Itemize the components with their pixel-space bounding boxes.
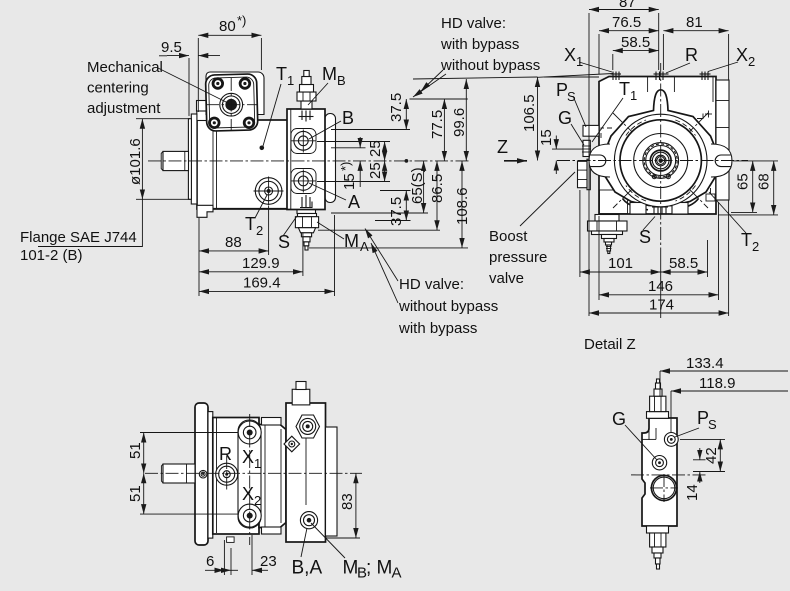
svg-text:M: M bbox=[322, 64, 337, 84]
svg-text:; M: ; M bbox=[366, 558, 392, 579]
svg-text:2: 2 bbox=[748, 54, 755, 69]
svg-text:42: 42 bbox=[703, 447, 720, 464]
svg-text:S: S bbox=[567, 89, 576, 104]
svg-text:G: G bbox=[558, 108, 572, 128]
svg-text:*): *) bbox=[237, 13, 246, 28]
svg-text:99.6: 99.6 bbox=[451, 108, 468, 137]
svg-text:51: 51 bbox=[127, 442, 144, 459]
svg-text:1: 1 bbox=[254, 456, 261, 471]
svg-text:25: 25 bbox=[367, 162, 384, 179]
svg-text:M: M bbox=[344, 231, 359, 251]
svg-text:S: S bbox=[708, 417, 717, 432]
svg-text:A: A bbox=[348, 192, 360, 212]
svg-text:106.5: 106.5 bbox=[521, 94, 538, 132]
svg-text:R: R bbox=[219, 444, 232, 464]
svg-text:valve: valve bbox=[489, 270, 524, 287]
svg-text:129.9: 129.9 bbox=[242, 255, 280, 272]
svg-text:without bypass: without bypass bbox=[398, 298, 498, 315]
svg-text:6: 6 bbox=[206, 553, 214, 570]
svg-text:1: 1 bbox=[287, 73, 294, 88]
svg-text:15: 15 bbox=[341, 173, 358, 190]
svg-text:B,A: B,A bbox=[292, 558, 323, 579]
svg-text:A: A bbox=[360, 239, 369, 254]
svg-text:ø101.6: ø101.6 bbox=[127, 138, 144, 185]
svg-text:23: 23 bbox=[260, 553, 277, 570]
svg-text:with bypass: with bypass bbox=[398, 320, 477, 337]
svg-text:37.5: 37.5 bbox=[388, 93, 405, 122]
svg-text:HD valve:: HD valve: bbox=[399, 276, 464, 293]
svg-text:Flange SAE J744: Flange SAE J744 bbox=[20, 229, 137, 246]
svg-text:S: S bbox=[639, 227, 651, 247]
svg-text:65(S): 65(S) bbox=[409, 167, 426, 204]
svg-text:51: 51 bbox=[127, 485, 144, 502]
svg-text:15: 15 bbox=[538, 129, 555, 146]
svg-text:A: A bbox=[392, 565, 402, 582]
svg-text:T: T bbox=[276, 64, 287, 84]
svg-text:*): *) bbox=[338, 162, 353, 171]
svg-text:B: B bbox=[337, 73, 346, 88]
svg-text:87: 87 bbox=[619, 0, 636, 11]
svg-text:101-2 (B): 101-2 (B) bbox=[20, 247, 83, 264]
svg-text:Mechanical: Mechanical bbox=[87, 59, 163, 76]
svg-text:1: 1 bbox=[576, 54, 583, 69]
svg-text:pressure: pressure bbox=[489, 249, 547, 266]
svg-text:37.5: 37.5 bbox=[388, 197, 405, 226]
svg-text:80: 80 bbox=[219, 18, 236, 35]
svg-text:Detail Z: Detail Z bbox=[584, 336, 636, 353]
svg-text:adjustment: adjustment bbox=[87, 100, 161, 117]
svg-text:centering: centering bbox=[87, 80, 149, 97]
svg-text:83: 83 bbox=[339, 493, 356, 510]
svg-text:14: 14 bbox=[684, 484, 701, 501]
svg-text:X: X bbox=[564, 45, 576, 65]
svg-text:X: X bbox=[242, 447, 254, 467]
svg-text:65: 65 bbox=[735, 173, 752, 190]
svg-text:Z: Z bbox=[497, 137, 508, 157]
svg-text:1: 1 bbox=[630, 88, 637, 103]
svg-text:2: 2 bbox=[256, 223, 263, 238]
svg-text:58.5: 58.5 bbox=[621, 34, 650, 51]
svg-text:M: M bbox=[343, 558, 359, 579]
svg-text:146: 146 bbox=[648, 278, 673, 295]
svg-text:77.5: 77.5 bbox=[429, 110, 446, 139]
svg-text:68: 68 bbox=[756, 173, 773, 190]
svg-text:25: 25 bbox=[367, 140, 384, 157]
svg-text:without bypass: without bypass bbox=[440, 57, 540, 74]
svg-text:R: R bbox=[685, 45, 698, 65]
svg-text:101: 101 bbox=[608, 255, 633, 272]
svg-text:88: 88 bbox=[225, 234, 242, 251]
svg-text:T: T bbox=[741, 230, 752, 250]
svg-text:169.4: 169.4 bbox=[243, 275, 281, 292]
svg-text:T: T bbox=[619, 79, 630, 99]
svg-text:T: T bbox=[245, 214, 256, 234]
svg-text:2: 2 bbox=[752, 239, 759, 254]
svg-text:HD valve:: HD valve: bbox=[441, 15, 506, 32]
svg-text:B: B bbox=[342, 108, 354, 128]
svg-text:174: 174 bbox=[649, 297, 674, 314]
svg-text:108.6: 108.6 bbox=[454, 187, 471, 225]
svg-text:133.4: 133.4 bbox=[686, 355, 724, 372]
svg-text:76.5: 76.5 bbox=[612, 14, 641, 31]
svg-text:118.9: 118.9 bbox=[699, 375, 735, 392]
svg-text:81: 81 bbox=[686, 14, 703, 31]
svg-text:2: 2 bbox=[254, 493, 261, 508]
svg-text:with bypass: with bypass bbox=[440, 36, 519, 53]
svg-text:58.5: 58.5 bbox=[669, 255, 698, 272]
svg-text:X: X bbox=[242, 484, 254, 504]
svg-text:86.5: 86.5 bbox=[429, 174, 446, 203]
svg-text:G: G bbox=[612, 409, 626, 429]
svg-text:Boost: Boost bbox=[489, 228, 528, 245]
svg-text:9.5: 9.5 bbox=[161, 39, 182, 56]
